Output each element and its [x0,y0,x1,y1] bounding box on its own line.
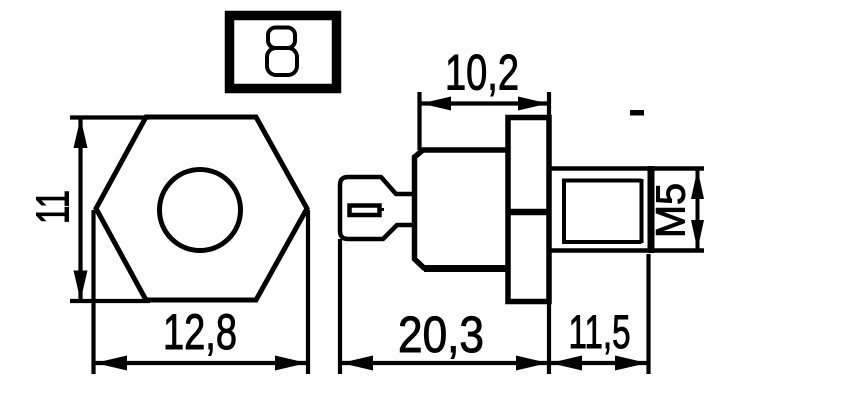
arrowheads for 11,5 [550,356,647,371]
svg-text:M5: M5 [648,183,694,238]
arrowheads for M5 [691,169,704,250]
arrowheads for 12,8 [95,356,307,371]
dimension 11: extension lines [70,118,150,302]
dimension 20,3 [340,239,549,374]
hole circle [160,170,241,251]
hex flange side view [508,118,549,302]
dim line vertical [78,118,82,301]
hex nut front view [96,117,307,300]
svg-text:11: 11 [27,190,79,224]
dim line horizontal [94,361,308,365]
arrowheads for 10,2 [421,97,548,111]
svg-text:11,5: 11,5 [569,305,631,358]
stray dash mark [630,110,644,116]
slot tail [378,208,384,211]
svg-text:12,8: 12,8 [163,304,237,360]
body (case) outline [415,150,509,269]
threaded stud [549,166,704,253]
arrowheads for 20,3 [341,356,548,371]
arrowheads for 11 [74,118,88,301]
dimension 12,8: extension lines [94,210,309,374]
dimension 11,5 [549,254,649,374]
side view: spade tab terminal [340,177,416,239]
svg-text:10,2: 10,2 [445,45,519,101]
dimension 10,2: extension lines [420,92,550,150]
M5 dimension line [696,169,700,251]
slot in tab [350,206,380,216]
digit 8 outline inside badge [267,28,297,76]
svg-text:20,3: 20,3 [398,306,484,363]
badge box with part number 8 [230,16,337,89]
